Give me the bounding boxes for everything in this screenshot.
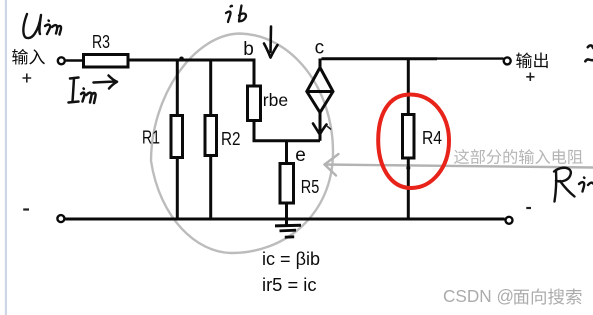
bottom-right terminal bbox=[506, 217, 513, 224]
input label 输入 bbox=[12, 49, 28, 65]
svg-text:R5: R5 bbox=[301, 176, 320, 197]
svg-text:R1: R1 bbox=[142, 127, 160, 148]
svg-text:c: c bbox=[315, 37, 325, 58]
ground symbol bbox=[275, 220, 301, 237]
encircling gray ellipse (selection loop) bbox=[151, 34, 333, 254]
wire: rbe down to e-row bbox=[253, 121, 256, 142]
svg-text:R3: R3 bbox=[92, 31, 110, 52]
junction dot on R4 wire bbox=[406, 166, 410, 170]
plus sign (input +) bbox=[23, 74, 32, 83]
wire: node b down to rbe bbox=[253, 59, 256, 87]
diamond crossbar bbox=[307, 90, 333, 93]
wire R2 to bottom bbox=[209, 156, 212, 220]
bottom wire bbox=[65, 218, 505, 221]
resistor R3 bbox=[84, 55, 129, 68]
wire R5 to bottom bbox=[285, 203, 288, 220]
resistor R2 bbox=[205, 116, 217, 156]
svg-text:R2: R2 bbox=[221, 128, 241, 149]
wire diamond to e-row bbox=[319, 113, 322, 141]
page left border line bbox=[5, 0, 7, 315]
source current arrowhead (down) bbox=[313, 124, 327, 135]
svg-text:rbe: rbe bbox=[263, 90, 288, 110]
resistor R1 bbox=[171, 116, 183, 158]
svg-text:CSDN @: CSDN @ bbox=[443, 286, 514, 306]
svg-text:ic = βib: ic = βib bbox=[262, 249, 320, 269]
stray handwritten mark at right edge bbox=[585, 45, 593, 61]
minus sign (output -) bbox=[526, 207, 531, 209]
wire e-row to R5 bbox=[285, 141, 288, 164]
svg-text:e: e bbox=[295, 145, 306, 166]
wire: input terminal to R3 bbox=[66, 59, 83, 62]
ib current arrow (down) bbox=[264, 27, 278, 58]
resistor R5 bbox=[280, 164, 294, 204]
input terminal bbox=[58, 57, 65, 64]
svg-text:R4: R4 bbox=[422, 127, 442, 148]
output terminal bbox=[504, 57, 511, 64]
output label 输出 bbox=[516, 52, 532, 68]
resistor rbe bbox=[248, 86, 261, 121]
handwritten label ib bbox=[226, 6, 246, 23]
wire: e-row horizontal bbox=[253, 139, 321, 142]
resistor R4 bbox=[403, 115, 415, 159]
handwritten label Uin bbox=[23, 14, 61, 38]
dependent current source (diamond) bbox=[307, 59, 333, 141]
handwritten current Iin with arrow bbox=[69, 76, 118, 104]
junction dot bbox=[179, 57, 184, 62]
wire R1 to bottom bbox=[176, 158, 179, 220]
R2 branch wire bbox=[209, 60, 212, 116]
wire R4 to bottom bbox=[407, 158, 410, 219]
plus sign (output +) bbox=[526, 73, 534, 82]
red circle highlighting R4 bbox=[378, 95, 449, 189]
R1 branch wire bbox=[176, 60, 179, 116]
wire: c node to output terminal bbox=[322, 57, 438, 60]
R4 branch wire bbox=[407, 59, 410, 115]
gray annotation arrow pointing at circuit bbox=[325, 154, 593, 176]
svg-text:ir5 = ic: ir5 = ic bbox=[262, 275, 317, 295]
diamond body bbox=[307, 68, 333, 113]
bottom-left terminal bbox=[57, 215, 64, 222]
CSDN watermark bbox=[442, 285, 514, 306]
svg-text:b: b bbox=[243, 39, 254, 60]
handwritten Rin bbox=[554, 168, 593, 202]
minus sign (input -) bbox=[23, 208, 29, 210]
gray note 这部分的输入电阻 bbox=[454, 149, 469, 164]
small handwritten tick bbox=[328, 127, 331, 130]
wire c corner down to diamond bbox=[319, 59, 322, 70]
wire: R3 to node b column bbox=[128, 59, 256, 62]
